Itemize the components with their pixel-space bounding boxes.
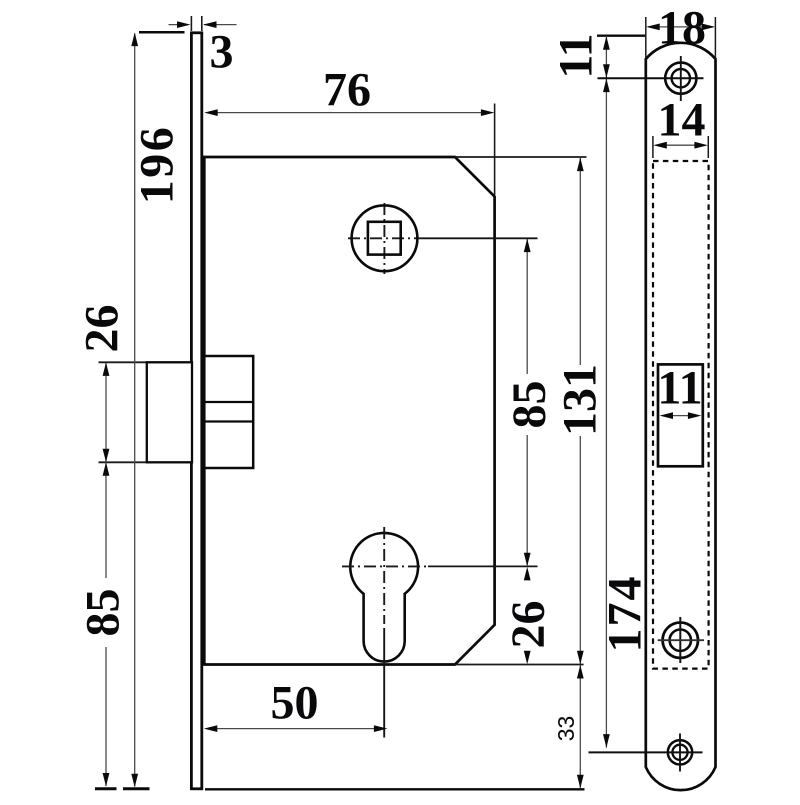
latch top extension line — [99, 361, 193, 363]
cylinder centerline extension to 26 dim — [428, 565, 538, 567]
dim 3 right arrow — [204, 24, 237, 26]
dim 85 left bottom tick — [95, 787, 117, 790]
svg-text:50: 50 — [271, 677, 319, 730]
bottom baseline extension — [205, 788, 585, 790]
dim 174 bottom extension line (through bottom screw) — [589, 751, 703, 753]
latch bottom extension line — [99, 461, 193, 463]
follower circle — [352, 205, 418, 271]
dim 76 right extension (body edge extended) — [494, 104, 496, 196]
middle screw hole crosshair horizontal — [658, 639, 704, 641]
follower centerline vertical (dash-dot) — [383, 203, 385, 274]
svg-text:174: 174 — [599, 575, 652, 653]
dim 174 arrows — [603, 79, 610, 93]
bottom screw hole crosshair vertical — [679, 734, 681, 772]
svg-text:26: 26 — [502, 601, 555, 649]
bottom screw hole outer circle — [668, 740, 692, 764]
dim 50 line — [216, 728, 376, 730]
middle screw hole inner circle — [670, 630, 691, 651]
body bottom extension line — [455, 664, 584, 666]
bolt housing inner line 1 — [204, 401, 253, 403]
body top extension line (to 131 dim) — [455, 156, 587, 158]
dim 11/174 vertical line — [605, 36, 607, 748]
dim 18 extension lines — [645, 17, 647, 58]
top screw hole inner circle — [672, 69, 690, 87]
dim 26 right arrows (cylinder to body bottom) — [524, 567, 531, 581]
svg-text:131: 131 — [554, 364, 607, 436]
dim 14 line — [657, 144, 704, 146]
faceplate edge extension lines above top — [190, 16, 192, 31]
euro cylinder hole profile — [350, 533, 418, 662]
bolt housing inner line 2 — [204, 420, 253, 422]
follower centerline extension to 85 dim — [422, 237, 538, 239]
faceplate side view (thin vertical plate) — [191, 33, 201, 789]
dim 196 line — [134, 34, 136, 787]
dim 33 line — [579, 665, 581, 788]
dim 3 left arrow — [169, 24, 189, 26]
top screw hole crosshair vertical — [680, 56, 682, 101]
dim 131 line — [579, 158, 581, 365]
middle screw hole crosshair vertical — [679, 617, 681, 663]
follower square spindle hole — [368, 222, 401, 255]
cylinder centerline horizontal (dash-dot) — [342, 565, 428, 567]
svg-text:76: 76 — [323, 64, 371, 117]
svg-text:196: 196 — [131, 125, 184, 205]
faceplate top extension line (to 196 dim) — [139, 31, 185, 34]
svg-text:85: 85 — [503, 381, 556, 429]
cylinder centerline extension to 50 dim — [383, 628, 385, 738]
lock body outline — [204, 157, 494, 665]
dim 76 line — [216, 112, 483, 114]
dim 85 left line — [105, 647, 107, 786]
svg-text:33: 33 — [553, 716, 579, 742]
svg-text:85: 85 — [77, 589, 130, 637]
dim 11 arrows — [603, 36, 610, 50]
svg-text:11: 11 — [550, 33, 603, 78]
cylinder centerline vertical (dash-dot) — [383, 527, 385, 624]
svg-text:11: 11 — [657, 362, 702, 415]
dim 11 top extension line — [597, 35, 645, 37]
svg-text:3: 3 — [210, 26, 234, 79]
latch bolt (protruding left of faceplate) — [147, 362, 192, 462]
svg-text:14: 14 — [658, 94, 706, 147]
top screw hole outer circle — [665, 63, 696, 94]
dim 26 left line — [105, 363, 107, 578]
latch opening box on plate — [658, 364, 703, 466]
dim 196 bottom tick — [123, 787, 150, 790]
dim 11 (latch opening) arrows — [664, 415, 697, 417]
striker plate front view outline — [646, 43, 716, 790]
dim 85 right line (follower to cylinder) — [526, 239, 528, 374]
dim 18 line — [648, 26, 713, 28]
dim 14 extension lines — [652, 136, 654, 158]
svg-text:26: 26 — [76, 305, 129, 353]
svg-text:18: 18 — [658, 2, 706, 55]
top screw hole crosshair horizontal / 11 bottom extension — [598, 77, 704, 79]
follower centerline horizontal (dash-dot) — [348, 237, 422, 239]
dashed cut-out rectangle on plate — [653, 161, 709, 669]
bolt housing box inside body — [204, 356, 253, 468]
middle screw hole outer circle — [663, 623, 698, 658]
bottom screw hole inner circle — [672, 745, 687, 760]
